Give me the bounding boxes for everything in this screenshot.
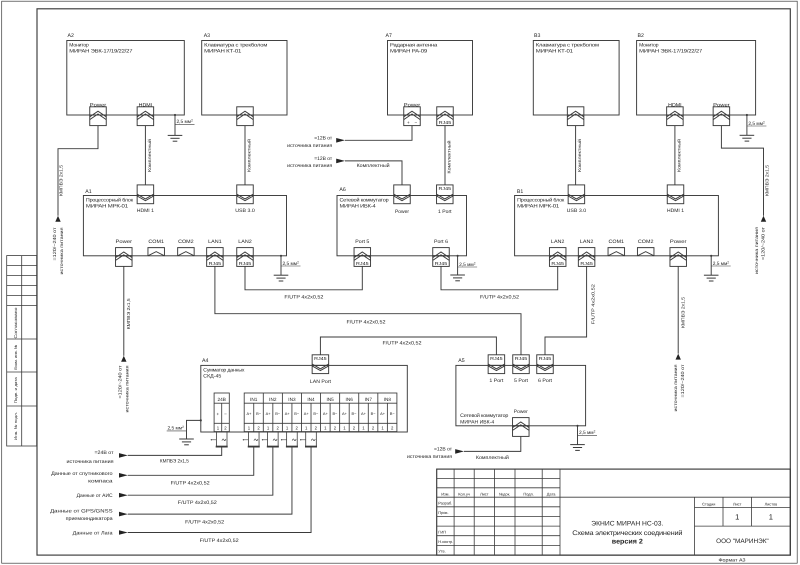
svg-text:A+: A+ [266, 411, 272, 416]
svg-text:МИРАН КТ-01: МИРАН КТ-01 [536, 49, 573, 55]
svg-text:IN3: IN3 [288, 397, 296, 402]
connector B1 COM2 (not connected) [637, 248, 654, 256]
B1 ground 2,5 mm2 [711, 260, 731, 267]
svg-text:источника питания: источника питания [67, 459, 114, 465]
svg-text:2,5 мм2: 2,5 мм2 [168, 425, 185, 432]
terminal plug X IN4 [300, 432, 317, 447]
svg-text:IN4: IN4 [307, 397, 315, 402]
connector A4 LAN Port [312, 355, 329, 374]
title block signature rows [438, 501, 453, 554]
svg-text:МИРАН ИВК-4: МИРАН ИВК-4 [460, 419, 494, 425]
svg-text:IN8: IN8 [384, 397, 392, 402]
connector A1 COM2 (not connected) [178, 248, 195, 256]
svg-text:КМПВЭ 2х1,5: КМПВЭ 2х1,5 [764, 164, 769, 196]
svg-text:B−: B− [294, 411, 300, 416]
svg-text:2,5 мм2: 2,5 мм2 [713, 260, 730, 267]
ground of A2 [168, 114, 183, 141]
svg-text:2,5 мм2: 2,5 мм2 [177, 119, 194, 126]
block A3 [202, 33, 287, 115]
supply arrow 12V for A6 [336, 159, 345, 164]
terminal plug X IN2 [262, 432, 279, 447]
connector A5 1 Port [488, 355, 505, 374]
wire A1 LAN1 to A5 5 Port (F/UTP) [215, 266, 521, 354]
svg-text:ГИП: ГИП [438, 529, 446, 534]
svg-text:Радарная антенна: Радарная антенна [390, 43, 437, 49]
svg-text:Комплектный: Комплектный [577, 138, 582, 172]
connector A1 LAN1 [207, 248, 224, 267]
supply arrow 12V for A5 [455, 449, 464, 454]
svg-text:Согласовано: Согласовано [13, 307, 18, 339]
connector A6 1 Port [437, 185, 454, 204]
connector A2 Power [90, 107, 107, 126]
svg-text:приемоиндикатора: приемоиндикатора [66, 516, 113, 522]
ground of A5 [570, 425, 585, 451]
supply arrow for B2 [761, 216, 766, 222]
svg-text:A+: A+ [342, 411, 348, 416]
connector A7 Power [404, 107, 421, 126]
wire A5 Power to 12V supply [464, 437, 521, 452]
connector A5 6 Port [537, 355, 554, 374]
connector A5 Power [513, 418, 530, 437]
svg-text:Листов: Листов [765, 501, 778, 506]
svg-text:МИРАН МРК-01: МИРАН МРК-01 [86, 204, 128, 210]
wire A1 Power to 220V supply [123, 266, 125, 355]
wire B1 Power to 220V supply [677, 266, 679, 353]
svg-text:A+: A+ [380, 411, 386, 416]
svg-text:Комплектный: Комплектный [247, 138, 252, 172]
svg-text:RJ45: RJ45 [239, 261, 252, 266]
wire B1 LAN2 to A5 6 Port (F/UTP) [545, 266, 587, 354]
svg-text:LAN Port: LAN Port [310, 379, 332, 385]
svg-text:Port 6: Port 6 [434, 239, 448, 245]
svg-text:RJ45: RJ45 [439, 120, 452, 125]
block A2 [67, 33, 185, 115]
svg-text:5 Port: 5 Port [514, 378, 529, 384]
ground of A1 [274, 255, 289, 281]
svg-text:B−: B− [275, 411, 281, 416]
supply arrow 12V for A7 [336, 138, 345, 143]
connector B1 Power [670, 248, 687, 267]
terminal block IN1..IN8 of A4 [244, 393, 397, 432]
svg-text:RJ45: RJ45 [580, 261, 593, 266]
svg-text:Комплектный: Комплектный [357, 163, 390, 169]
terminal plug X IN3 [281, 432, 298, 447]
svg-text:COM2: COM2 [638, 239, 654, 245]
svg-text:Клавиатура с трекболом: Клавиатура с трекболом [536, 43, 600, 49]
svg-text:COM1: COM1 [148, 239, 164, 245]
svg-text:IN5: IN5 [326, 397, 334, 402]
wire AIS data to A4 IN2 [128, 448, 273, 496]
svg-text:источника питания: источника питания [754, 226, 759, 274]
svg-text:24В: 24В [218, 397, 226, 402]
block A4 [201, 358, 407, 432]
wire B3 USB to B1 USB 3.0 [575, 126, 577, 185]
svg-text:B−: B− [352, 411, 358, 416]
svg-text:Процессорный блок: Процессорный блок [517, 198, 565, 204]
svg-text:ЭКНИС МИРАН НС-03.: ЭКНИС МИРАН НС-03. [591, 521, 663, 528]
svg-text:B3: B3 [534, 33, 540, 39]
svg-text:1: 1 [769, 513, 773, 522]
svg-text:B−: B− [390, 411, 396, 416]
svg-text:A5: A5 [458, 358, 464, 364]
svg-text:RJ45: RJ45 [435, 261, 448, 266]
svg-text:Данные от Лага: Данные от Лага [73, 531, 113, 537]
stage/sheet header [702, 501, 777, 506]
wire log data to A4 IN4 [128, 448, 311, 533]
svg-text:Разраб.: Разраб. [438, 501, 452, 506]
block A1 [83, 189, 286, 256]
svg-text:HDMI 1: HDMI 1 [137, 208, 154, 214]
wire A7 LAN to A6 1 Port [444, 126, 446, 185]
svg-text:источника питания: источника питания [125, 365, 130, 413]
svg-text:МИРАН ИВК-4: МИРАН ИВК-4 [340, 204, 376, 210]
svg-text:=12В от: =12В от [434, 447, 453, 453]
svg-text:2,5 мм2: 2,5 мм2 [459, 261, 476, 268]
svg-text:Port 5: Port 5 [355, 239, 369, 245]
svg-text:IN7: IN7 [365, 397, 373, 402]
connector B3 USB [567, 107, 584, 126]
svg-text:Пров.: Пров. [438, 510, 448, 515]
A4 ground cross-section label 2,5 mm2 [167, 425, 187, 432]
supply arrow for A2 [55, 216, 60, 222]
svg-text:Power: Power [404, 103, 421, 109]
svg-text:Процессорный блок: Процессорный блок [86, 198, 134, 204]
svg-text:Клавиатура с трекболом: Клавиатура с трекболом [204, 43, 268, 49]
wire A2 HDMI to A1 HDMI 1 [144, 126, 146, 185]
svg-text:Изм.: Изм. [441, 491, 449, 496]
svg-text:F/UTP 4х2х0,52: F/UTP 4х2х0,52 [185, 520, 224, 526]
svg-text:Power: Power [670, 239, 687, 245]
svg-text:№док.: №док. [499, 491, 510, 496]
connector A6 Port 5 [354, 248, 371, 267]
title block (GOST main inscription) [437, 469, 791, 555]
svg-text:B−: B− [332, 411, 338, 416]
svg-text:2,5 мм2: 2,5 мм2 [748, 120, 765, 127]
svg-text:B−: B− [371, 411, 377, 416]
svg-text:−: − [414, 120, 417, 125]
svg-text:МИРАН РА-09: МИРАН РА-09 [390, 49, 427, 55]
svg-text:Сетевой коммутатор: Сетевой коммутатор [340, 198, 389, 204]
svg-text:LAN1: LAN1 [208, 239, 222, 245]
connector B1 USB 3.0 [568, 185, 585, 204]
svg-text:2,5 мм2: 2,5 мм2 [283, 260, 300, 267]
svg-text:USB 3.0: USB 3.0 [567, 208, 587, 214]
block B2 [637, 33, 756, 115]
A6 ground 2,5 mm2 [458, 261, 478, 268]
block A6 [337, 187, 467, 256]
svg-text:6 Port: 6 Port [538, 378, 553, 384]
svg-text:Сумматор данных: Сумматор данных [203, 367, 245, 373]
svg-text:Комплектный: Комплектный [476, 455, 509, 461]
A1 ground 2,5 mm2 [281, 260, 301, 267]
svg-text:Инв. № подл.: Инв. № подл. [14, 412, 18, 440]
connector A2 HDMI [137, 107, 154, 126]
left margin attribute table [7, 256, 37, 446]
wire A2 Power to 220V supply [58, 126, 98, 216]
svg-text:Сетевой коммутатор: Сетевой коммутатор [460, 413, 508, 419]
block A7 [386, 33, 473, 115]
svg-text:IN2: IN2 [269, 397, 277, 402]
svg-text:RJ45: RJ45 [490, 356, 503, 361]
svg-text:КМПВЭ 2х1,5: КМПВЭ 2х1,5 [681, 296, 686, 328]
terminal block 24V of A4 [214, 393, 229, 432]
svg-text:B−: B− [256, 411, 262, 416]
connector A1 LAN2 [237, 248, 254, 267]
svg-text:LAN2: LAN2 [551, 239, 565, 245]
svg-text:Power: Power [116, 239, 133, 245]
connector A1 Power [116, 248, 133, 267]
terminal plug X IN1 [243, 432, 260, 447]
connector A1 COM1 (not connected) [148, 248, 165, 256]
svg-text:F/UTP 4х2х0,52: F/UTP 4х2х0,52 [178, 500, 217, 506]
svg-text:HDMI: HDMI [139, 103, 153, 109]
svg-text:МИРАН МРК-01: МИРАН МРК-01 [517, 204, 559, 210]
svg-text:RJ45: RJ45 [551, 261, 564, 266]
svg-text:СКД-45: СКД-45 [203, 374, 221, 380]
svg-text:Кол.уч: Кол.уч [458, 491, 470, 496]
connector A7 LAN [437, 107, 454, 126]
svg-text:КМПВЭ 2х1,5: КМПВЭ 2х1,5 [160, 458, 189, 464]
svg-text:A+: A+ [247, 411, 253, 416]
svg-text:IN6: IN6 [346, 397, 354, 402]
ground of A4 [179, 419, 202, 445]
connector A5 5 Port [513, 355, 530, 374]
svg-text:A1: A1 [85, 189, 91, 195]
svg-text:1 Port: 1 Port [489, 378, 504, 384]
svg-text:источника питания: источника питания [673, 364, 678, 412]
ground of B1 [704, 255, 719, 281]
svg-text:источника питания: источника питания [59, 227, 64, 275]
block A5 [456, 358, 586, 426]
svg-text:Подп. и дата: Подп. и дата [14, 376, 18, 403]
svg-text:Данные от АИС: Данные от АИС [77, 493, 113, 499]
svg-text:1: 1 [735, 513, 739, 522]
svg-text:LAN2: LAN2 [580, 239, 594, 245]
svg-text:Комплектный: Комплектный [147, 138, 152, 172]
wire A6 Port 6 to B1 LAN2 (F/UTP) [441, 266, 558, 289]
svg-text:+: + [407, 120, 410, 125]
document title [572, 521, 683, 546]
wire A1 LAN2 to A6 Port 5 (F/UTP) [245, 266, 362, 289]
svg-text:USB 3.0: USB 3.0 [235, 208, 255, 214]
svg-text:=120/~240 от: =120/~240 от [680, 365, 685, 398]
svg-text:Взам. инв. №: Взам. инв. № [14, 345, 18, 370]
svg-text:1 Port: 1 Port [438, 209, 452, 215]
svg-text:A+: A+ [304, 411, 310, 416]
svg-text:RJ45: RJ45 [356, 261, 369, 266]
wire A3 USB to A1 USB 3.0 [244, 126, 246, 185]
connector A6 Power [394, 185, 411, 204]
wire A6 Power to 12V supply [345, 161, 402, 185]
svg-text:RJ45: RJ45 [209, 261, 222, 266]
svg-text:RJ45: RJ45 [515, 356, 528, 361]
svg-text:COM2: COM2 [178, 239, 194, 245]
svg-text:версия 2: версия 2 [612, 539, 643, 546]
svg-text:Power: Power [514, 409, 528, 415]
svg-text:Формат А3: Формат А3 [719, 558, 747, 563]
svg-text:КМПВЭ 2х1,5: КМПВЭ 2х1,5 [58, 164, 63, 196]
block B3 [533, 33, 619, 115]
svg-text:МИРАН ЭВК-17/19/22/27: МИРАН ЭВК-17/19/22/27 [69, 49, 132, 55]
svg-text:МИРАН ЭВК-17/19/22/27: МИРАН ЭВК-17/19/22/27 [639, 49, 702, 55]
svg-text:A7: A7 [386, 33, 392, 39]
svg-text:F/UTP 4х2х0,52: F/UTP 4х2х0,52 [200, 538, 239, 544]
wire B2 Power to 220V supply [721, 126, 763, 216]
svg-text:F/UTP 4х2х0,52: F/UTP 4х2х0,52 [480, 295, 519, 301]
connector A1 HDMI 1 [137, 185, 154, 204]
svg-text:=120/~240 от: =120/~240 от [52, 228, 57, 261]
svg-text:B1: B1 [517, 189, 523, 195]
svg-text:RJ45: RJ45 [439, 186, 452, 191]
svg-text:Power: Power [395, 209, 409, 215]
svg-text:Данные от GPS/GNSS: Данные от GPS/GNSS [50, 509, 113, 515]
svg-text:Комплектный: Комплектный [447, 140, 452, 174]
svg-text:=120/~240 от: =120/~240 от [761, 227, 766, 260]
wire GPS/GNSS data to A4 IN3 [128, 448, 292, 515]
connector B2 HDMI [667, 107, 684, 126]
sheet numbers [735, 513, 773, 522]
svg-text:Дата: Дата [547, 491, 556, 496]
svg-text:+: + [217, 412, 220, 417]
svg-text:=12В от: =12В от [314, 135, 333, 141]
title block header row [441, 491, 556, 496]
svg-text:=24В от: =24В от [95, 450, 115, 456]
ground of B2 [740, 114, 755, 141]
svg-text:Комплектный: Комплектный [676, 138, 681, 172]
svg-text:Лист: Лист [733, 501, 742, 506]
svg-text:Монитор: Монитор [639, 43, 659, 49]
svg-text:F/UTP 4х2х0,52: F/UTP 4х2х0,52 [284, 295, 323, 301]
connector B2 Power [713, 107, 730, 126]
svg-text:источника питания: источника питания [287, 163, 332, 169]
svg-text:A3: A3 [204, 33, 210, 39]
svg-text:ООО "МАРИНЭК": ООО "МАРИНЭК" [716, 538, 769, 545]
svg-text:B2: B2 [638, 33, 644, 39]
svg-text:КМПВЭ 2х1,5: КМПВЭ 2х1,5 [126, 298, 131, 330]
terminal plug X 24V [211, 432, 228, 447]
connector B1 LAN2 b [578, 248, 595, 267]
svg-text:B−: B− [313, 411, 319, 416]
block B1 [515, 189, 719, 256]
svg-text:A+: A+ [323, 411, 329, 416]
svg-text:F/UTP 4х2х0,52: F/UTP 4х2х0,52 [383, 341, 422, 347]
svg-text:Лист: Лист [480, 491, 489, 496]
svg-text:Стадия: Стадия [702, 501, 715, 506]
A5 ground 2,5 mm2 [578, 430, 598, 437]
wire B2 HDMI to B1 HDMI 1 [674, 126, 676, 185]
svg-text:A4: A4 [202, 358, 208, 364]
svg-text:F/UTP 4х2х0,52: F/UTP 4х2х0,52 [171, 480, 210, 486]
svg-text:Power: Power [713, 103, 730, 109]
svg-text:F/UTP 4х2х0,52: F/UTP 4х2х0,52 [347, 319, 386, 325]
svg-text:A2: A2 [68, 33, 74, 39]
svg-text:Схема электрических соединений: Схема электрических соединений [572, 530, 683, 537]
svg-text:МИРАН КТ-01: МИРАН КТ-01 [204, 49, 241, 55]
svg-text:RJ45: RJ45 [539, 356, 552, 361]
svg-text:HDMI 1: HDMI 1 [667, 208, 684, 214]
svg-text:LAN2: LAN2 [238, 239, 252, 245]
svg-text:A6: A6 [339, 187, 345, 193]
svg-text:A+: A+ [361, 411, 367, 416]
svg-text:источника питания: источника питания [287, 143, 332, 149]
connector B1 COM1 (not connected) [608, 248, 625, 256]
supply arrow for A1 [121, 356, 126, 362]
svg-text:−: − [224, 412, 227, 417]
svg-text:COM1: COM1 [609, 239, 625, 245]
wire A4 LAN Port to A5 1 Port (F/UTP) [320, 337, 496, 355]
ground of A6 [450, 255, 465, 281]
svg-text:=12В от: =12В от [314, 156, 333, 162]
svg-text:Подп.: Подп. [523, 491, 533, 496]
svg-text:Монитор: Монитор [69, 43, 89, 49]
svg-text:Power: Power [90, 103, 107, 109]
connector A6 Port 6 [433, 248, 450, 267]
svg-text:RJ45: RJ45 [314, 356, 327, 361]
B2 ground 2,5 mm2 [747, 120, 767, 127]
svg-text:A+: A+ [285, 411, 291, 416]
svg-text:источника питания: источника питания [407, 454, 452, 460]
wire 24V supply to A4 [128, 448, 222, 456]
svg-text:Утв.: Утв. [438, 549, 445, 554]
svg-text:Данные от спутникового: Данные от спутникового [51, 471, 113, 477]
svg-text:Н.контр.: Н.контр. [438, 539, 453, 544]
connector B1 HDMI 1 [667, 185, 684, 204]
svg-text:=120/~240 от: =120/~240 от [118, 366, 123, 399]
svg-text:2,5 мм2: 2,5 мм2 [579, 430, 596, 437]
connector B1 LAN2 a [549, 248, 566, 267]
svg-text:F/UTP 4х2х0,52: F/UTP 4х2х0,52 [591, 284, 596, 325]
A2 ground 2,5 mm2 [175, 119, 195, 126]
supply arrow for B1 [676, 354, 681, 360]
wire gyrocompass data to A4 IN1 [128, 448, 254, 476]
connector A3 USB [237, 107, 254, 126]
svg-text:IN1: IN1 [250, 397, 258, 402]
svg-text:HDMI: HDMI [668, 103, 682, 109]
svg-text:компаса: компаса [88, 479, 113, 485]
wire A7 Power to 12V supply [345, 126, 412, 141]
connector A1 USB 3.0 [237, 185, 254, 204]
